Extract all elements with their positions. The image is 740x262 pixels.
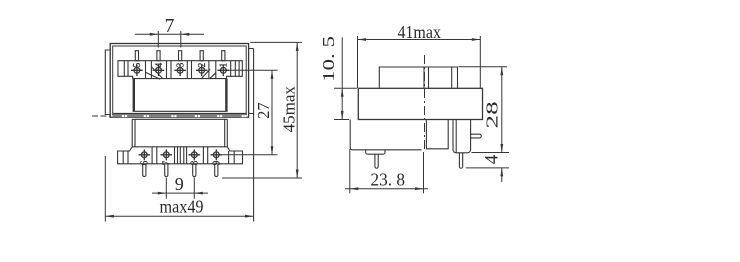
svg-text:9: 9	[175, 174, 184, 194]
bobbin window bottom	[133, 110, 228, 112]
mounting foot (side)	[366, 150, 385, 154]
dimension 45max (overall height)	[222, 42, 302, 178]
lower bobbin flange (front)	[132, 119, 227, 147]
dimension 7 (top pin pitch)	[135, 31, 204, 48]
left lamination tab	[105, 50, 110, 115]
centerline left stub	[92, 115, 110, 117]
core slab (side)	[358, 88, 482, 119]
dimension 23.8	[345, 149, 428, 193]
top pin 4 lead	[157, 51, 160, 61]
svg-text:7: 7	[161, 161, 173, 166]
bobbin top block inner lines	[424, 67, 452, 88]
bottom pin 9 lead	[215, 164, 218, 177]
left pin (side)	[375, 154, 378, 168]
terminal crosshair pin 6	[139, 149, 151, 160]
diagonal hatch between pin5 and pin4	[146, 67, 163, 79]
terminal crosshair pin 2	[196, 65, 208, 77]
bobbin window left edge	[133, 79, 135, 112]
svg-text:28: 28	[482, 101, 501, 128]
pin numbers top	[132, 63, 230, 166]
dimension 4 (pin length side)	[466, 168, 509, 182]
bottom strip dividers	[123, 147, 234, 164]
top pin 1 lead	[222, 51, 225, 61]
svg-text:6: 6	[139, 161, 151, 166]
terminal crosshair pin 7	[161, 149, 173, 160]
bobbin window right edge	[225, 79, 227, 112]
dimension 28 (overall height side)	[459, 67, 510, 153]
lower bobbin left block (side)	[350, 120, 421, 150]
svg-text:4: 4	[481, 154, 502, 164]
right pin (side)	[459, 153, 462, 168]
top pin 5 lead	[135, 51, 138, 61]
diagonal hatch between pin2 and pin1	[201, 69, 216, 79]
svg-text:41max: 41max	[397, 22, 441, 42]
core bottom interlock band	[113, 115, 247, 117]
dimension max49 (overall width)	[105, 156, 253, 222]
middle bottom section (side)	[426, 120, 448, 149]
terminal crosshair pin 4	[153, 65, 165, 77]
core bottom inner line	[113, 112, 247, 114]
svg-text:1: 1	[218, 63, 230, 68]
top terminal strip outline	[118, 61, 242, 79]
top pin 2 lead	[200, 51, 203, 61]
bottom pin 7 lead	[165, 164, 168, 177]
svg-text:4: 4	[153, 63, 165, 68]
dimension 27 (pin row spacing)	[222, 70, 277, 155]
vertical centerline (side)	[424, 55, 426, 152]
right tab (side)	[471, 134, 482, 138]
core lamination outer rect	[110, 44, 248, 118]
top strip dividers	[124, 61, 239, 79]
svg-text:7: 7	[165, 16, 175, 37]
svg-text:9: 9	[211, 161, 223, 166]
dimension 41max (core width)	[358, 36, 481, 88]
svg-text:max49: max49	[160, 196, 204, 216]
top pin 3 lead	[179, 51, 182, 61]
svg-text:8: 8	[189, 161, 201, 166]
svg-text:23. 8: 23. 8	[371, 170, 406, 190]
bobbin top block (side)	[379, 67, 457, 88]
right flange inner line	[455, 120, 457, 153]
terminal crosshair pin 9	[211, 149, 223, 160]
bottom pin 8 lead	[193, 164, 196, 177]
svg-text:27: 27	[254, 102, 273, 119]
terminal crosshair pin 5	[131, 65, 143, 77]
bottom terminal strip outline	[118, 147, 243, 164]
dimension 10.5 (core stack height)	[334, 37, 357, 119]
svg-text:5: 5	[132, 63, 144, 68]
right lamination tab	[249, 49, 254, 222]
core lamination inner rect	[113, 46, 247, 115]
svg-text:10. 5: 10. 5	[319, 36, 338, 82]
terminal crosshair pin 8	[189, 149, 201, 160]
right flange (side)	[453, 120, 471, 153]
bottom pin 6 lead	[143, 164, 146, 177]
svg-text:3: 3	[175, 63, 187, 68]
terminal crosshair pin 1	[218, 65, 230, 77]
svg-text:2: 2	[196, 63, 208, 68]
svg-text:45max: 45max	[279, 86, 298, 133]
terminal crosshair pin 3	[174, 65, 186, 77]
dimension 9 (bottom pin pitch)	[152, 178, 208, 199]
